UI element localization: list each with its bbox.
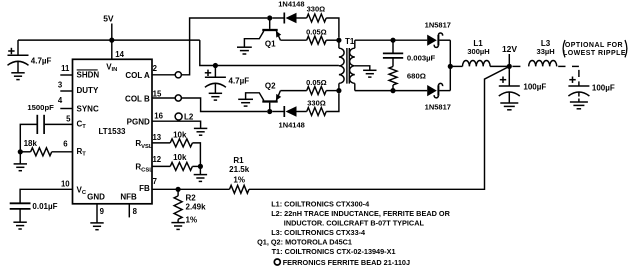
wire base to D2 bbox=[272, 111, 284, 113]
wire 18k to ground bbox=[19, 152, 21, 164]
wire pin 13 bbox=[152, 142, 170, 144]
capacitor C 100µF output bbox=[500, 77, 506, 83]
pin 9 GND stub bbox=[96, 204, 98, 223]
wire 10k lower to bus bbox=[192, 165, 200, 167]
ground under left 4.7µF bbox=[11, 73, 24, 80]
node snubber top bbox=[390, 38, 395, 43]
capacitor 0.01µF bbox=[10, 203, 31, 209]
transistor Q2 bbox=[246, 91, 282, 112]
svg-text:18k: 18k bbox=[24, 139, 38, 148]
resistor 330Ω bottom bbox=[307, 108, 326, 116]
resistor 10k upper bbox=[170, 139, 192, 147]
svg-text:L2: L2 bbox=[184, 112, 194, 121]
svg-text:5: 5 bbox=[66, 115, 71, 124]
svg-text:21.5k: 21.5k bbox=[229, 165, 250, 174]
ground under optional 100µF bbox=[570, 102, 588, 109]
diode D3 1N5817 top bbox=[427, 33, 442, 47]
wire D1 to 330Ω top bbox=[297, 17, 307, 19]
wire L1 to 12V node bbox=[490, 65, 509, 67]
wire PGND pin 16 bbox=[152, 121, 201, 128]
ferrite bead L2 bbox=[175, 113, 182, 120]
wire 10k upper to bus bbox=[192, 143, 200, 167]
svg-text:330Ω: 330Ω bbox=[307, 5, 326, 14]
svg-text:0.05Ω: 0.05Ω bbox=[306, 27, 327, 36]
ground under Q2 bbox=[238, 99, 253, 106]
svg-text:L3: COILTRONICS CTX33-4: L3: COILTRONICS CTX33-4 bbox=[271, 228, 366, 237]
wire pin 12 bbox=[152, 165, 170, 167]
wire 330Ω top to T1 bbox=[326, 18, 339, 38]
svg-text:RVSL: RVSL bbox=[135, 139, 153, 150]
svg-text:L1: COILTRONICS CTX300-4: L1: COILTRONICS CTX300-4 bbox=[271, 199, 370, 208]
note ferrite bead symbol bbox=[274, 259, 280, 265]
wire secondary centre tap bbox=[355, 66, 370, 71]
ground under tap 4.7µF bbox=[209, 93, 222, 100]
wire output rail bbox=[449, 40, 451, 90]
svg-text:5V: 5V bbox=[103, 14, 114, 24]
ferrite bead on COL A bbox=[175, 72, 181, 78]
wire base to D1 bbox=[272, 17, 284, 19]
inductor L1 300µH bbox=[463, 61, 491, 67]
svg-text:RT: RT bbox=[77, 147, 87, 158]
svg-text:1%: 1% bbox=[233, 175, 245, 184]
resistor 680Ω snubber bbox=[389, 67, 397, 85]
ground under Q1 bbox=[237, 47, 252, 54]
node Q2 base junction bbox=[267, 109, 272, 114]
wire feedback R1 to 12V node bbox=[249, 66, 509, 189]
svg-text:R1: R1 bbox=[233, 156, 244, 165]
svg-text:4.7µF: 4.7µF bbox=[229, 76, 250, 85]
diode D4 1N5817 bottom bbox=[427, 83, 442, 97]
svg-text:1500pF: 1500pF bbox=[27, 103, 54, 112]
svg-text:4: 4 bbox=[58, 96, 63, 105]
wire dashed 12V to L3 bbox=[512, 65, 520, 67]
svg-text:6: 6 bbox=[63, 139, 68, 148]
svg-text:DUTY: DUTY bbox=[77, 86, 99, 95]
svg-text:33µH: 33µH bbox=[537, 47, 555, 56]
svg-text:10: 10 bbox=[61, 180, 70, 189]
svg-text:T1: COILTRONICS CTX-02-13949-X: T1: COILTRONICS CTX-02-13949-X1 bbox=[272, 247, 396, 256]
node FB junction bbox=[176, 187, 181, 192]
svg-text:PGND: PGND bbox=[127, 117, 150, 126]
wire 5V rail bbox=[18, 39, 200, 41]
node Q1 base junction bbox=[267, 15, 272, 20]
svg-text:LT1533: LT1533 bbox=[99, 127, 127, 136]
svg-text:VC: VC bbox=[77, 185, 87, 196]
svg-text:16: 16 bbox=[154, 111, 163, 120]
svg-text:INDUCTOR. COILCRAFT B-07T TYPI: INDUCTOR. COILCRAFT B-07T TYPICAL bbox=[284, 218, 425, 227]
resistor 10k lower bbox=[170, 162, 192, 170]
wire 12V stub bbox=[508, 54, 510, 66]
node T1 primary top bbox=[336, 38, 341, 43]
wire rail to L1 bbox=[450, 65, 462, 67]
svg-text:1N5817: 1N5817 bbox=[425, 20, 451, 29]
ground pin 9 bbox=[90, 223, 103, 230]
capacitor 0.003µF snubber bbox=[392, 40, 394, 53]
svg-text:LOWEST RIPPLE: LOWEST RIPPLE bbox=[563, 50, 626, 57]
capacitor C 4.7µF input left bbox=[8, 48, 14, 54]
svg-text:14: 14 bbox=[115, 50, 124, 59]
wire VC pin 10 bbox=[20, 189, 72, 203]
ferrite bead on COL B bbox=[175, 95, 181, 101]
ground under L2 bbox=[194, 128, 207, 135]
svg-text:T1: T1 bbox=[345, 37, 355, 46]
svg-text:13: 13 bbox=[152, 133, 161, 142]
svg-text:15: 15 bbox=[153, 89, 162, 98]
inductor L3 33µH bbox=[529, 61, 557, 67]
svg-text:SYNC: SYNC bbox=[77, 104, 99, 113]
diode D1 1N4148 top bbox=[284, 13, 296, 24]
svg-text:Q2: Q2 bbox=[265, 82, 276, 91]
node output rail junction bbox=[448, 64, 453, 69]
svg-text:300µH: 300µH bbox=[467, 47, 489, 56]
wire COL A pin 2 bbox=[152, 74, 175, 76]
ground under 0.01µF bbox=[13, 222, 26, 229]
pin 4 SYNC stub bbox=[60, 108, 72, 110]
svg-text:12: 12 bbox=[152, 155, 161, 164]
wire dashed L3 to C4 bbox=[558, 65, 565, 67]
ground under 18k bbox=[14, 164, 27, 171]
transformer T1 secondary bbox=[354, 40, 356, 48]
svg-text:VIN: VIN bbox=[106, 63, 117, 74]
svg-text:330Ω: 330Ω bbox=[307, 98, 326, 107]
svg-text:680Ω: 680Ω bbox=[407, 71, 426, 80]
svg-text:FB: FB bbox=[139, 184, 150, 193]
wire 5V stub to VIN pin 14 bbox=[111, 24, 113, 60]
svg-text:0.05Ω: 0.05Ω bbox=[306, 78, 327, 87]
wire D2 to 330Ω bottom bbox=[297, 111, 307, 113]
svg-text:4.7µF: 4.7µF bbox=[31, 57, 52, 66]
wire COL B pin 15 bbox=[152, 97, 175, 99]
wire D3 to output rail bbox=[439, 39, 450, 41]
diode D2 1N4148 bottom bbox=[284, 106, 296, 117]
svg-text:Q1: Q1 bbox=[265, 40, 276, 49]
wire COL A riser bbox=[181, 18, 267, 75]
ground under output 100µF bbox=[500, 103, 518, 110]
ground under 10k bbox=[194, 175, 207, 182]
resistor 0.05Ω bottom bbox=[280, 90, 306, 92]
node 5V junction bbox=[109, 38, 114, 43]
svg-text:COL B: COL B bbox=[125, 94, 150, 103]
pin 3 DUTY stub bbox=[60, 90, 72, 92]
svg-text:7: 7 bbox=[153, 177, 157, 186]
wire secondary top rail bbox=[355, 39, 427, 41]
wire 10k junction to ground bbox=[199, 166, 201, 174]
wire 330Ω bottom to T1 bbox=[326, 93, 339, 111]
svg-text:CT: CT bbox=[77, 119, 87, 130]
resistor 0.05Ω top bbox=[280, 39, 306, 41]
resistor R2 2.49k bbox=[177, 189, 179, 196]
svg-text:NFB: NFB bbox=[120, 192, 137, 201]
node 18k junction bbox=[18, 149, 23, 154]
svg-text:Q1, Q2: MOTOROLA D45C1: Q1, Q2: MOTOROLA D45C1 bbox=[257, 237, 352, 246]
node snubber bottom bbox=[390, 88, 395, 93]
capacitor 1500pF bbox=[45, 123, 73, 125]
wire D4 to output rail bbox=[439, 90, 450, 92]
ground under R2 bbox=[171, 223, 184, 230]
wire FB pin 7 bbox=[152, 188, 230, 190]
node 10k junction bbox=[198, 164, 203, 169]
svg-text:12V: 12V bbox=[502, 44, 517, 54]
svg-text:1%: 1% bbox=[186, 215, 198, 224]
svg-text:0.01µF: 0.01µF bbox=[32, 202, 57, 211]
transformer T1 primary bbox=[338, 40, 340, 48]
op-amp U1 LT1533 body bbox=[73, 59, 153, 204]
capacitor C 4.7µF tap bbox=[205, 70, 211, 76]
wire 5V to T1 centre tap bbox=[200, 40, 339, 65]
svg-text:OPTIONAL FOR: OPTIONAL FOR bbox=[565, 42, 623, 49]
capacitor C 100µF optional bbox=[569, 77, 575, 83]
pin 11 SHDN stub bbox=[60, 74, 72, 76]
svg-text:100µF: 100µF bbox=[523, 82, 546, 91]
pin 8 NFB stub bbox=[128, 204, 130, 218]
svg-text:SHDN: SHDN bbox=[77, 71, 100, 80]
svg-text:FERRONICS FERRITE BEAD 21-110J: FERRONICS FERRITE BEAD 21-110J bbox=[283, 258, 410, 267]
svg-text:2: 2 bbox=[153, 64, 158, 73]
node 4.7µF tap junction bbox=[213, 63, 218, 68]
resistor 18k bbox=[20, 151, 30, 153]
transistor Q1 bbox=[244, 18, 281, 47]
wire secondary bottom rail bbox=[355, 90, 427, 92]
resistor R1 21.5k bbox=[230, 185, 249, 193]
svg-text:8: 8 bbox=[133, 207, 138, 216]
svg-text:10k: 10k bbox=[173, 153, 187, 162]
svg-text:COL A: COL A bbox=[125, 71, 150, 80]
node T1 primary bottom bbox=[336, 88, 341, 93]
label OPTIONAL FOR LOWEST RIPPLE bbox=[563, 40, 565, 57]
node 12V junction bbox=[507, 64, 512, 69]
svg-text:R2: R2 bbox=[186, 193, 197, 202]
ground secondary centre tap bbox=[363, 70, 376, 77]
svg-text:RCSL: RCSL bbox=[135, 163, 153, 174]
wire COL B to bottom row bbox=[181, 98, 267, 112]
svg-text:1N4148: 1N4148 bbox=[278, 0, 304, 8]
svg-text:11: 11 bbox=[61, 64, 70, 73]
svg-text:1N5817: 1N5817 bbox=[425, 102, 451, 111]
svg-text:GND: GND bbox=[87, 192, 105, 201]
svg-text:L2: 22nH TRACE INDUCTANCE, FER: L2: 22nH TRACE INDUCTANCE, FERRITE BEAD … bbox=[271, 209, 450, 218]
svg-text:9: 9 bbox=[100, 207, 105, 216]
transformer T1 core bbox=[347, 48, 349, 84]
svg-text:10k: 10k bbox=[173, 131, 187, 140]
svg-text:0.003µF: 0.003µF bbox=[407, 53, 436, 62]
svg-text:100µF: 100µF bbox=[592, 83, 615, 92]
svg-text:3: 3 bbox=[58, 81, 63, 90]
svg-text:2.49k: 2.49k bbox=[186, 203, 207, 212]
resistor 330Ω top bbox=[307, 14, 326, 22]
svg-text:1N4148: 1N4148 bbox=[279, 120, 305, 129]
